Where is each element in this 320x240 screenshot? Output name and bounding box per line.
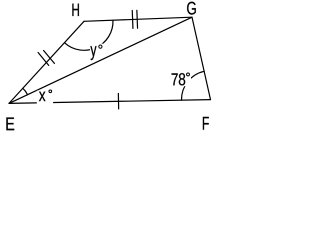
white mask under label y&#176; (90, 44, 104, 56)
double tick on EH (mark 1) (38, 53, 49, 66)
double tick on HG (mark 2) (136, 10, 139, 28)
side GF (192, 17, 211, 99)
degree sign of y (99, 45, 102, 48)
angle arc at F (181, 71, 204, 100)
side HG (84, 17, 192, 21)
vertex label G (187, 2, 196, 15)
angle label x (39, 92, 46, 102)
degree sign of x (49, 90, 52, 93)
double tick on EH (mark 2) (44, 51, 55, 64)
angle label y (90, 46, 96, 60)
diagonal EG (9, 17, 192, 103)
vertex label H (72, 4, 79, 16)
angle label 8 of 78 (179, 73, 185, 85)
side EH (9, 21, 84, 103)
vertex label F (203, 117, 209, 130)
angle label 7 of 78 (172, 73, 178, 85)
angle arc at H (64, 20, 113, 50)
degree sign of 78 (187, 73, 190, 76)
side FE (9, 100, 211, 104)
white mask under label x&#176; (37, 91, 53, 106)
white mask under label 78&#176; (171, 72, 192, 87)
angle arc at E (23, 88, 28, 94)
single tick on EF (117, 94, 119, 109)
double tick on HG (mark 1) (131, 10, 134, 28)
vertex label E (6, 118, 14, 131)
